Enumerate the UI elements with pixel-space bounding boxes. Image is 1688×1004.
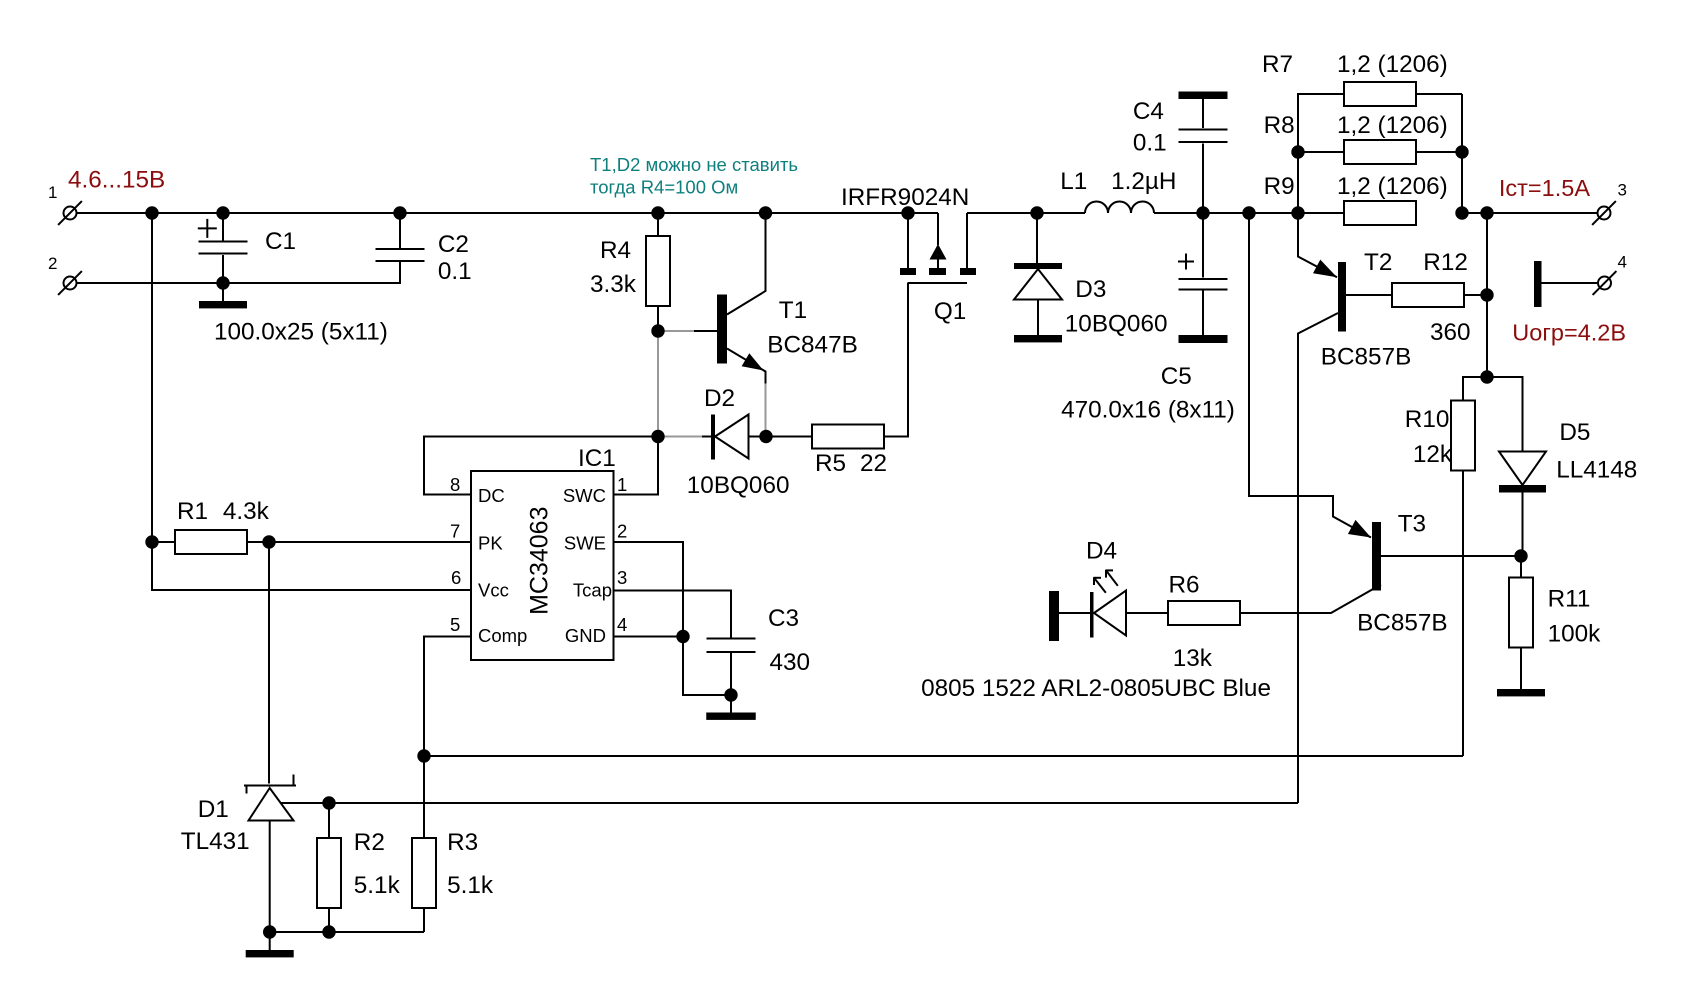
wire input - to C1/C2 bottom bbox=[77, 262, 401, 283]
svg-text:6: 6 bbox=[451, 567, 461, 588]
svg-text:0.1: 0.1 bbox=[438, 258, 472, 285]
svg-text:BC847B: BC847B bbox=[767, 332, 858, 359]
diode D5 LL4148 bbox=[1487, 377, 1523, 452]
wire output node to T3 emitter bbox=[1249, 213, 1371, 538]
svg-text:R9: R9 bbox=[1264, 173, 1295, 200]
resistor R11 bbox=[1520, 556, 1522, 578]
svg-text:5: 5 bbox=[450, 614, 460, 635]
junction R8 left bbox=[1291, 145, 1304, 158]
svg-text:BC857B: BC857B bbox=[1321, 344, 1412, 371]
capacitor C2 bbox=[399, 213, 401, 248]
wire sense right vertical bbox=[1461, 94, 1463, 213]
junction R4 top bbox=[651, 206, 664, 219]
svg-text:1,2 (1206): 1,2 (1206) bbox=[1337, 173, 1448, 200]
wire gray R4 to D2 bbox=[657, 331, 659, 437]
svg-text:1: 1 bbox=[48, 183, 57, 202]
svg-text:5.1k: 5.1k bbox=[354, 872, 401, 899]
LED D4 ARL2-0805UBC bbox=[1094, 591, 1126, 636]
svg-text:R1: R1 bbox=[177, 498, 208, 525]
IC1 MC34063 box bbox=[471, 471, 614, 660]
svg-text:12k: 12k bbox=[1413, 441, 1453, 468]
junction T1 collector / rail bbox=[759, 206, 772, 219]
svg-text:4.3k: 4.3k bbox=[223, 498, 270, 525]
svg-text:R3: R3 bbox=[447, 829, 478, 856]
resistor R6 bbox=[1168, 601, 1240, 625]
svg-text:TL431: TL431 bbox=[181, 828, 250, 855]
junction rail/Vin vertical bbox=[145, 206, 158, 219]
transistor T1 BC847B bbox=[694, 330, 717, 332]
junction C1 top bbox=[216, 206, 229, 219]
svg-text:13k: 13k bbox=[1173, 645, 1213, 672]
wire T2 collector to D1 ref bbox=[281, 802, 1298, 804]
svg-text:1: 1 bbox=[617, 474, 627, 495]
svg-text:R10: R10 bbox=[1405, 406, 1450, 433]
junction comp node bbox=[417, 749, 430, 762]
wire T3 base to D5/R11 node bbox=[1381, 555, 1521, 557]
svg-text:4: 4 bbox=[617, 614, 627, 635]
svg-text:1,2 (1206): 1,2 (1206) bbox=[1337, 112, 1448, 139]
svg-text:4: 4 bbox=[1618, 253, 1627, 272]
junction D2 right / T1 emitter bbox=[759, 430, 772, 443]
svg-text:0.1: 0.1 bbox=[1133, 130, 1167, 157]
svg-text:C4: C4 bbox=[1133, 98, 1164, 125]
svg-text:8: 8 bbox=[450, 474, 460, 495]
junction R4 bottom bbox=[651, 324, 664, 337]
junction R2 bottom bbox=[322, 925, 335, 938]
svg-text:Q1: Q1 bbox=[934, 298, 966, 325]
svg-text:470.0x16 (8x11): 470.0x16 (8x11) bbox=[1061, 397, 1235, 424]
svg-text:T1,D2 можно не ставить: T1,D2 можно не ставить bbox=[590, 154, 798, 175]
junction D2 left / SWC bbox=[651, 430, 664, 443]
resistor R5 bbox=[812, 425, 884, 449]
junction T3 base / D5 / R11 bbox=[1514, 549, 1527, 562]
svg-text:0805 1522 ARL2-0805UBC Blue: 0805 1522 ARL2-0805UBC Blue bbox=[921, 675, 1271, 702]
wire R12 node vertical bbox=[1486, 213, 1488, 377]
svg-text:LL4148: LL4148 bbox=[1556, 457, 1637, 484]
bar electrode at LED bbox=[1049, 591, 1059, 641]
junction C1 bottom / input - bbox=[216, 276, 229, 289]
wire Vin vertical to Vcc bbox=[152, 213, 471, 590]
svg-text:1.2µH: 1.2µH bbox=[1111, 168, 1176, 195]
svg-text:MC34063: MC34063 bbox=[526, 506, 554, 614]
resistor R12 bbox=[1392, 283, 1464, 307]
svg-text:5.1k: 5.1k bbox=[447, 872, 494, 899]
svg-text:100.0x25 (5x11): 100.0x25 (5x11) bbox=[214, 319, 388, 346]
svg-text:L1: L1 bbox=[1060, 168, 1087, 195]
svg-text:DC: DC bbox=[478, 485, 505, 506]
wire switch-node rail bbox=[967, 212, 1085, 214]
svg-text:SWE: SWE bbox=[564, 533, 606, 554]
svg-text:T2: T2 bbox=[1364, 249, 1392, 276]
ground bar above C4 bbox=[1179, 92, 1228, 100]
junction R12 right bbox=[1480, 288, 1493, 301]
svg-text:Iст=1.5A: Iст=1.5A bbox=[1499, 175, 1590, 201]
junction R8 right bbox=[1455, 145, 1468, 158]
capacitor C3 bbox=[707, 638, 756, 640]
wire gray R4 to T1 base bbox=[658, 330, 694, 332]
resistor R4 bbox=[657, 213, 659, 236]
svg-text:D3: D3 bbox=[1075, 276, 1106, 303]
resistor R1 bbox=[152, 541, 175, 543]
wire D1 anode to R2/R3 bottom bbox=[270, 931, 424, 933]
svg-text:7: 7 bbox=[450, 521, 460, 542]
svg-text:4.6...15В: 4.6...15В bbox=[68, 167, 165, 194]
junction C3 bottom bbox=[724, 688, 737, 701]
junction D3 / switch node bbox=[1030, 206, 1043, 219]
diode D3 10BQ060 bbox=[1036, 213, 1038, 263]
capacitor C1 bbox=[222, 213, 224, 241]
junction R10/D5 node bbox=[1480, 370, 1493, 383]
inductor L1 bbox=[1085, 202, 1154, 213]
resistor R10 bbox=[1463, 377, 1487, 401]
wire gray T1 emitter to D2 bbox=[765, 384, 767, 437]
junction R12 node / rail bbox=[1480, 206, 1493, 219]
svg-text:10BQ060: 10BQ060 bbox=[1065, 311, 1168, 338]
LED emission arrows bbox=[1095, 579, 1106, 593]
svg-text:Tcap: Tcap bbox=[573, 580, 612, 601]
wire rail to terminal 3 bbox=[1462, 212, 1598, 214]
svg-text:C2: C2 bbox=[438, 231, 469, 258]
wire comp/R10 long net bbox=[424, 755, 1463, 757]
svg-text:BC857B: BC857B bbox=[1357, 610, 1448, 637]
svg-text:R8: R8 bbox=[1264, 112, 1295, 139]
transistor T2 BC857B bbox=[1298, 213, 1337, 277]
resistor R8 bbox=[1344, 140, 1416, 164]
svg-text:GND: GND bbox=[565, 625, 606, 646]
svg-text:D1: D1 bbox=[198, 796, 229, 823]
junction R2 top / D1 ref bbox=[322, 796, 335, 809]
svg-text:R4: R4 bbox=[600, 237, 631, 264]
junction R1 right / PK bbox=[262, 535, 275, 548]
svg-text:R5: R5 bbox=[815, 450, 846, 477]
ground under C1 bbox=[199, 301, 247, 308]
T3 collector bbox=[1240, 585, 1381, 614]
bar electrode at terminal 4 bbox=[1534, 261, 1542, 307]
wire bar to terminal 4 bbox=[1542, 282, 1599, 284]
resistor R3 bbox=[423, 756, 425, 932]
resistor R9 (in line with rail) bbox=[1344, 201, 1416, 225]
ground under D1 bbox=[246, 950, 294, 957]
svg-text:T1: T1 bbox=[779, 297, 807, 324]
svg-text:22: 22 bbox=[860, 450, 887, 477]
svg-text:R12: R12 bbox=[1423, 249, 1468, 276]
resistor R2 bbox=[328, 803, 330, 838]
junction T3 emitter / output node bbox=[1242, 206, 1255, 219]
junction C4/C5 / output node bbox=[1196, 206, 1209, 219]
svg-text:3.3k: 3.3k bbox=[590, 271, 637, 298]
wire input + rail bbox=[77, 212, 939, 214]
svg-text:Comp: Comp bbox=[478, 625, 527, 646]
svg-text:R6: R6 bbox=[1169, 572, 1200, 599]
svg-text:D5: D5 bbox=[1559, 419, 1590, 446]
resistor R7 bbox=[1298, 94, 1344, 213]
junction Q1 source / rail bbox=[901, 206, 914, 219]
ground under D3 bbox=[1014, 335, 1062, 342]
junction D1 anode bbox=[263, 925, 276, 938]
svg-text:3: 3 bbox=[617, 567, 627, 588]
svg-text:T3: T3 bbox=[1398, 511, 1426, 538]
svg-text:D2: D2 bbox=[704, 385, 735, 412]
capacitor C4 bbox=[1202, 144, 1204, 214]
svg-text:10BQ060: 10BQ060 bbox=[687, 472, 790, 499]
transistor T3 BC857B bbox=[1348, 520, 1371, 538]
junction GND/SWE bbox=[676, 630, 689, 643]
svg-text:R7: R7 bbox=[1262, 51, 1293, 78]
svg-text:C5: C5 bbox=[1161, 363, 1192, 390]
diode D1 TL431 bbox=[268, 542, 270, 784]
svg-text:100k: 100k bbox=[1548, 621, 1602, 648]
svg-text:360: 360 bbox=[1430, 319, 1471, 346]
junction sense right / rail bbox=[1455, 206, 1468, 219]
svg-text:R11: R11 bbox=[1548, 586, 1591, 613]
svg-text:R2: R2 bbox=[354, 829, 385, 856]
svg-text:тогда R4=100 Ом: тогда R4=100 Ом bbox=[590, 177, 738, 198]
svg-text:3: 3 bbox=[1618, 181, 1627, 200]
capacitor C5 bbox=[1202, 213, 1204, 278]
svg-text:C1: C1 bbox=[265, 228, 296, 255]
svg-text:IC1: IC1 bbox=[578, 445, 616, 472]
svg-text:430: 430 bbox=[770, 649, 811, 676]
svg-text:Uогр=4.2В: Uогр=4.2В bbox=[1512, 320, 1626, 346]
svg-text:D4: D4 bbox=[1086, 538, 1117, 565]
ground under R11 bbox=[1497, 689, 1545, 696]
svg-text:PK: PK bbox=[478, 533, 503, 554]
svg-text:2: 2 bbox=[617, 521, 627, 542]
svg-text:SWC: SWC bbox=[563, 485, 606, 506]
svg-text:C3: C3 bbox=[768, 605, 799, 632]
svg-text:1,2 (1206): 1,2 (1206) bbox=[1337, 51, 1448, 78]
junction sense left / rail bbox=[1291, 206, 1304, 219]
svg-text:2: 2 bbox=[48, 254, 57, 273]
svg-text:Vcc: Vcc bbox=[478, 580, 509, 601]
ground under C5 bbox=[1179, 335, 1228, 343]
junction R1 left bbox=[145, 535, 158, 548]
diode D2 10BQ060 bbox=[702, 436, 711, 438]
junction C2 top bbox=[393, 206, 406, 219]
ground under C3 bbox=[706, 713, 756, 720]
